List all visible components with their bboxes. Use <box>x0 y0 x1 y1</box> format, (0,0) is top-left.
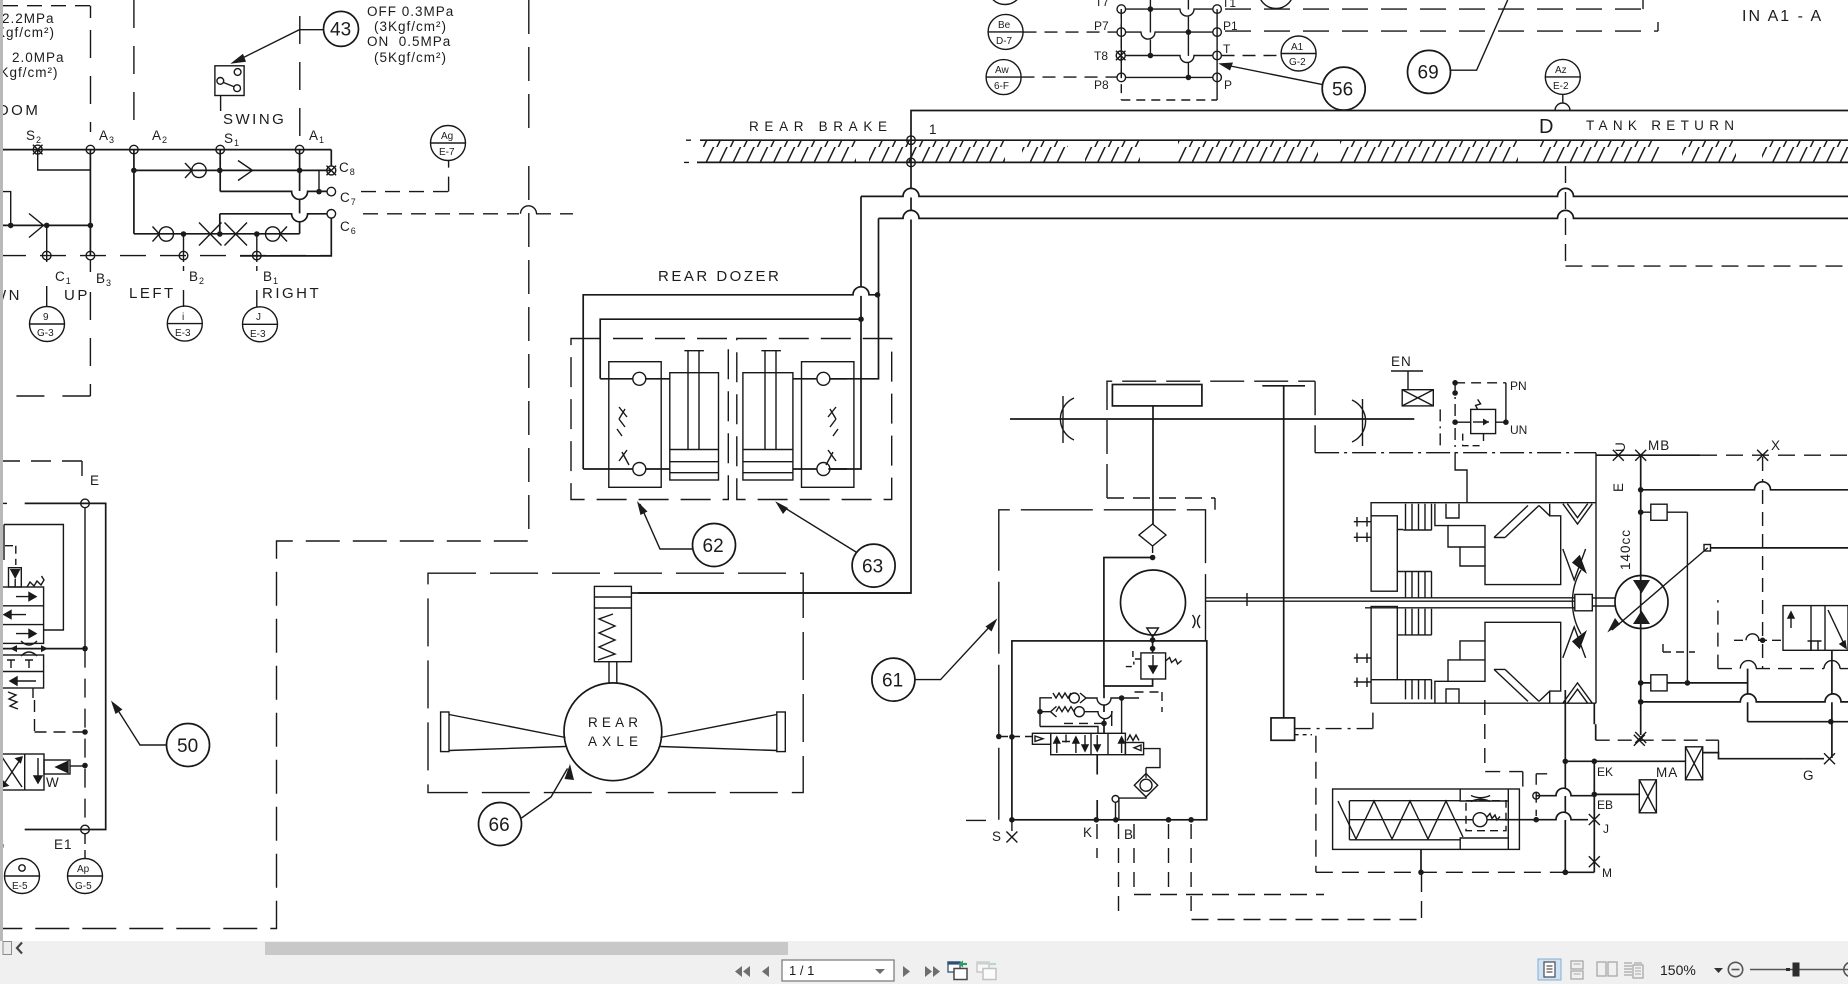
svg-text:63: 63 <box>862 557 883 578</box>
leader 61 <box>916 621 996 680</box>
wire line2 check+arrow to C8 <box>134 169 331 171</box>
cylinder right <box>743 351 793 480</box>
port C1 <box>42 251 51 260</box>
gear mesh ticks top <box>1354 517 1371 542</box>
machine boundary box (top/left) <box>638 111 1848 594</box>
leader 66 <box>522 769 568 819</box>
clutch plate stripes G1 <box>1403 504 1431 530</box>
clutch plate stripes G2 <box>1403 572 1431 598</box>
port C7 <box>327 187 336 196</box>
shuttle valve upper <box>1040 693 1139 712</box>
wire A2 vertical <box>133 150 135 234</box>
J mark <box>1589 814 1600 825</box>
other bottom junctions <box>1166 817 1172 823</box>
relief bypass loop <box>1104 558 1153 687</box>
small relief valve <box>1471 409 1496 433</box>
clutch plate stripes G3 <box>1403 609 1431 635</box>
wire PN down to UN <box>1505 383 1507 422</box>
rotate icon 1 <box>947 961 967 980</box>
location circle 9 G-3 <box>30 307 65 342</box>
leader 43 <box>236 30 324 62</box>
hub connectors <box>1397 530 1403 680</box>
directional valve <box>1032 733 1143 754</box>
dozer dashed box left <box>571 339 728 500</box>
EB line <box>1536 788 1594 796</box>
svg-text:Be: Be <box>998 20 1011 31</box>
svg-text:G-3: G-3 <box>37 328 54 339</box>
solenoid valve lower <box>0 754 44 790</box>
main shaft line <box>1010 418 1414 420</box>
wire rear brake line 2 <box>879 210 1848 218</box>
wire line3 S1 to C7 <box>220 191 327 199</box>
wire S1 vertical <box>219 150 221 192</box>
svg-text:Aw: Aw <box>995 65 1009 76</box>
svg-text:62: 62 <box>703 536 724 557</box>
dashed L to E line <box>35 700 86 732</box>
wire rear brake line 1 <box>861 188 1848 196</box>
svg-text:K: K <box>1083 825 1093 840</box>
svg-text:IN A1 - A: IN A1 - A <box>1742 8 1823 25</box>
wire line5 bottom checks <box>134 233 300 235</box>
wire switch to S1 <box>220 96 222 112</box>
svg-text:J: J <box>1603 822 1609 836</box>
lock valve right <box>802 362 854 488</box>
pressure switch symbol <box>215 66 244 96</box>
wire valve drain K <box>1096 755 1098 820</box>
page view icon cover <box>1624 963 1643 978</box>
check valve on line2 <box>185 163 206 178</box>
wire valve bottom to dashed corner <box>32 688 34 698</box>
wire y721.7 <box>1748 721 1848 723</box>
flushing valve <box>1783 606 1848 651</box>
dashed long horizontal y872 <box>1316 871 1594 873</box>
charge pump outlet triangle <box>1147 628 1159 637</box>
location circle J E-3 <box>243 307 278 342</box>
wire C1 vertical <box>46 225 48 262</box>
svg-text:S: S <box>992 829 1002 844</box>
wire ports row y150 <box>0 150 331 166</box>
shaft centre chain line <box>1315 452 1596 454</box>
wire S2 branch down to A3 <box>38 150 91 170</box>
wire branch C8 down to line3 <box>318 170 320 191</box>
svg-text:J: J <box>256 312 261 323</box>
wire row T8 <box>1126 56 1214 63</box>
leader 69 <box>1451 0 1508 70</box>
svg-text:ON 0.5MPa: ON 0.5MPa <box>367 34 451 49</box>
port P <box>1213 73 1222 82</box>
pilot dashed vertical E to E1 <box>84 508 86 649</box>
gauge square top <box>1651 504 1667 520</box>
first page button <box>735 966 742 977</box>
wire y702 long <box>1641 694 1848 702</box>
charge pump circle <box>1121 570 1186 635</box>
coupling marks right of pump <box>1193 615 1201 628</box>
valve body lower cells <box>0 655 44 688</box>
svg-text:B2: B2 <box>189 269 205 286</box>
gear mesh ticks bottom <box>1354 654 1371 688</box>
MA valve <box>1686 747 1703 780</box>
dashed pilot y668 <box>1718 600 1848 669</box>
vertical EK to M <box>1593 761 1595 861</box>
EN solenoid box <box>1402 390 1433 406</box>
svg-text:B3: B3 <box>96 271 112 288</box>
left gray strip <box>0 0 3 941</box>
svg-text:UP: UP <box>64 287 90 304</box>
top connector block T7/P7/T8/P8 <box>1094 0 1238 100</box>
port P7 <box>1117 28 1126 37</box>
location circle A1 G-2 <box>1281 36 1316 71</box>
check valve to B <box>1112 768 1158 820</box>
toolbar body <box>0 955 1848 984</box>
wire C6 down to B1 line <box>240 218 331 256</box>
wire dozer supply 2 <box>600 319 861 379</box>
small dashed corner <box>1663 640 1695 652</box>
clutch plate stripes G4 <box>1403 680 1431 700</box>
chain line x134 <box>133 0 135 131</box>
zoom out button <box>1728 962 1742 976</box>
piston staircase lower <box>1435 622 1561 703</box>
svg-text:B: B <box>1124 827 1134 842</box>
vertical x1747 <box>1747 669 1749 722</box>
wire B2 vertical <box>183 234 185 262</box>
svg-text:E: E <box>90 473 100 488</box>
svg-text:E-7: E-7 <box>439 147 455 158</box>
axle lines right <box>660 715 777 751</box>
port A2 <box>130 145 139 154</box>
scrollbar thumb <box>265 942 788 955</box>
bump on C6 dash over chain <box>521 206 537 214</box>
pilot dash C6 line right <box>363 213 573 215</box>
svg-text:W: W <box>46 775 60 790</box>
svg-text:2.2MPa: 2.2MPa <box>2 11 55 26</box>
port B3 <box>86 251 95 260</box>
location circle Az E-2 <box>1545 59 1580 94</box>
port E <box>81 499 90 508</box>
rotate icon 2 <box>976 961 996 979</box>
pilot box with triangle <box>44 760 70 774</box>
port line MB/U/X <box>1596 454 1700 456</box>
rod line <box>1349 819 1472 821</box>
wire line y225 with arrow <box>0 224 90 226</box>
svg-text:Ag: Ag <box>441 131 453 142</box>
svg-text:E-2: E-2 <box>1553 81 1569 92</box>
engine T shaft <box>1262 386 1305 718</box>
svg-text:AXLE: AXLE <box>588 734 639 749</box>
port P1 <box>1213 28 1222 37</box>
svg-text:61: 61 <box>882 671 903 692</box>
svg-text:A1: A1 <box>1291 42 1304 53</box>
leader 56 <box>1228 66 1323 85</box>
vertical x1832 <box>1831 650 1833 758</box>
variable displacement arrow <box>1612 548 1708 630</box>
valve body upper <box>0 587 44 643</box>
svg-text:56: 56 <box>1332 80 1353 101</box>
location circle partial top 2 <box>1259 0 1294 9</box>
port B1 <box>252 251 261 260</box>
svg-text:43: 43 <box>330 20 351 41</box>
pilot line dashes to Aw circle <box>1022 76 1118 78</box>
wire into left valve bottom <box>583 468 670 470</box>
coupling left <box>1060 396 1074 443</box>
svg-text:A1: A1 <box>309 128 325 145</box>
svg-text:2.0MPa: 2.0MPa <box>12 50 65 65</box>
dashed enclosure right bottom <box>1485 700 1523 790</box>
V chevron mid lower <box>1563 627 1586 658</box>
pilot line T to A1/G-2 <box>1222 55 1282 57</box>
gauge square bottom <box>1651 675 1667 691</box>
leader 50 <box>114 704 167 745</box>
dashed corner above E <box>0 461 82 476</box>
wire B1 vertical <box>256 234 258 262</box>
EB solenoid valve <box>1639 780 1656 813</box>
wire column 3 <box>1187 0 1189 77</box>
wire Az to box top <box>1555 94 1570 110</box>
chain line x300 <box>299 16 301 138</box>
callout circle 61 <box>872 658 915 701</box>
block outline top <box>1371 503 1596 516</box>
zoom dropdown caret <box>1714 968 1723 973</box>
oil cooler <box>1112 385 1202 406</box>
svg-text:REAR: REAR <box>588 715 639 730</box>
wire y683 <box>1641 682 1748 684</box>
piston staircase upper <box>1435 504 1561 585</box>
wire row P7 <box>1126 32 1214 39</box>
dashed corner y740 <box>1596 740 1719 752</box>
junctions under pump <box>1150 637 1156 643</box>
svg-text:MB: MB <box>1648 438 1670 453</box>
dashed bottoms <box>1134 875 1422 920</box>
scrollbar track <box>0 941 1848 955</box>
port A1 <box>295 145 304 154</box>
filter <box>1139 524 1166 553</box>
pilot dash to left box edge <box>1001 736 1032 738</box>
svg-text:EN: EN <box>1391 354 1412 369</box>
wire rod to J <box>1500 812 1588 819</box>
left vertical from block <box>1594 703 1595 740</box>
port T8 plugged <box>1116 51 1126 61</box>
last page button <box>925 966 932 977</box>
zoom in button (clipped) <box>1844 962 1848 976</box>
wire y648 with throttle <box>0 648 85 650</box>
cylinder left <box>670 351 719 480</box>
port T <box>1213 51 1222 60</box>
callout circle 69 <box>1408 50 1451 93</box>
svg-text:50: 50 <box>177 736 198 757</box>
chain line x528 full <box>0 0 529 929</box>
svg-text:C6: C6 <box>340 219 357 236</box>
inner feedback box <box>4 525 63 631</box>
wire pump out down <box>1152 637 1154 653</box>
svg-text:C7: C7 <box>340 190 357 207</box>
svg-text:RIGHT: RIGHT <box>262 285 321 302</box>
diagonal braces upper <box>1494 506 1550 538</box>
chain from box corner down <box>1295 734 1312 736</box>
dashed left enclosure of pump circuit <box>999 510 1206 820</box>
wire row P8 <box>1126 76 1214 78</box>
port node on band bottom <box>907 158 916 167</box>
svg-text:S2: S2 <box>26 128 42 145</box>
port T7 <box>1117 5 1126 14</box>
rear axle circle <box>564 683 662 781</box>
dozer dashed box right <box>737 339 892 500</box>
axle hub <box>1575 594 1593 610</box>
scrollbar corner button <box>3 942 12 955</box>
pilot dash into valve <box>1064 722 1104 724</box>
port node on band top <box>907 136 916 145</box>
page view icon single (active) <box>1538 959 1561 980</box>
wire vertical x877.5 to rear dozer <box>829 218 878 378</box>
port P8 <box>1117 73 1126 82</box>
svg-text:(5Kgf/cm²): (5Kgf/cm²) <box>374 50 447 65</box>
callout circle 50 <box>167 724 210 767</box>
G mark <box>1824 753 1835 764</box>
wire A1 vertical <box>299 150 301 234</box>
svg-text:E-3: E-3 <box>250 329 266 340</box>
M mark <box>1589 856 1600 867</box>
svg-text:G-5: G-5 <box>75 881 92 892</box>
EK line <box>1565 760 1594 762</box>
valve stack upper: pilot triangle <box>9 568 22 587</box>
location circle partial top <box>988 0 1023 5</box>
wire line4 to C6 <box>220 214 327 234</box>
svg-text:B1: B1 <box>263 269 279 286</box>
pilot dashed vertical x1565 + corner <box>1566 166 1848 266</box>
callout circle 62 <box>693 524 736 567</box>
wire dozer supply 1 <box>583 287 877 469</box>
line E out <box>1641 482 1848 490</box>
dashed verticals below block <box>1097 824 1191 920</box>
wire dot to valve right port <box>1121 698 1123 733</box>
wire column 1 <box>1121 9 1217 100</box>
location circle Be D-7 <box>988 14 1023 49</box>
wire cylinder to x911 <box>631 592 911 594</box>
wire loop into valve top <box>1040 727 1098 734</box>
V chevrons right top <box>1563 504 1593 524</box>
svg-text:REAR DOZER: REAR DOZER <box>658 268 781 285</box>
dashed vertical to EB circle <box>1536 774 1548 816</box>
spring top right <box>27 576 44 587</box>
wire row T7 <box>1126 9 1214 16</box>
leader 62 <box>640 504 693 549</box>
PN UN pilot network <box>1452 379 1527 453</box>
control line right <box>1711 547 1848 549</box>
arrow on y225 <box>29 214 44 238</box>
svg-text:P7: P7 <box>1094 19 1109 33</box>
pump flow triangles <box>1633 580 1650 594</box>
dashed line T1 to top-right corner <box>1225 8 1643 10</box>
svg-text:P: P <box>1224 78 1232 92</box>
port A3 <box>86 145 95 154</box>
svg-text:E-3: E-3 <box>175 328 191 339</box>
svg-text:LEFT: LEFT <box>129 285 176 302</box>
location circle Aw 6-F <box>986 60 1021 95</box>
prev page button <box>762 966 769 977</box>
svg-text:T: T <box>1223 42 1231 56</box>
callout circle 56 <box>1322 67 1365 110</box>
junction dozer line2 <box>858 316 864 322</box>
MA line from EK <box>1594 753 1804 762</box>
charge relief valve <box>1126 650 1182 679</box>
port C6 <box>327 210 336 219</box>
big spring <box>1338 801 1463 839</box>
svg-text:EK: EK <box>1597 765 1613 779</box>
svg-text:Ap: Ap <box>77 864 90 875</box>
svg-text:S1: S1 <box>224 131 240 148</box>
coupling right <box>1352 399 1366 446</box>
location circle Ap G-5 <box>68 859 103 894</box>
clutch drum rect upper <box>1371 516 1397 591</box>
svg-text:D: D <box>1539 116 1553 138</box>
wire column 2 <box>1149 0 1151 56</box>
svg-text:E: E <box>1611 482 1626 492</box>
main pump vertical <box>1640 455 1642 735</box>
svg-text:T8: T8 <box>1094 49 1108 63</box>
junction filter out <box>1150 555 1156 561</box>
throttle X pair on line5 <box>199 223 247 246</box>
dashed into flushing valve <box>1734 639 1783 641</box>
pilot line dashes to Be circle <box>1024 31 1118 33</box>
svg-text:C8: C8 <box>339 160 356 177</box>
dashed box around cooler area <box>1107 381 1315 498</box>
svg-text:E-5: E-5 <box>12 881 28 892</box>
gearbox output box <box>1271 718 1295 740</box>
dashed line P1 to top-right corner <box>1225 30 1658 32</box>
chain vertical below EN <box>1439 409 1441 449</box>
svg-text:6-F: 6-F <box>994 81 1009 92</box>
port C8 plugged <box>327 166 337 176</box>
stub wires to circles <box>47 260 257 307</box>
arrow on line2 <box>238 161 253 181</box>
svg-text:PN: PN <box>1510 379 1527 393</box>
svg-text:SWING: SWING <box>223 111 286 128</box>
control block box <box>1012 641 1207 820</box>
wire cooler to filter <box>1152 406 1154 524</box>
svg-text:G: G <box>1803 768 1815 783</box>
svg-text:66: 66 <box>489 815 510 836</box>
swash arc with arrows <box>1572 570 1581 634</box>
wire M to left vertical <box>1565 862 1594 873</box>
chain line top text box <box>3 6 91 18</box>
wire column 4 <box>1216 9 1218 100</box>
wire A3 vertical <box>89 150 91 256</box>
shuttle valve lower <box>1037 706 1112 726</box>
chain line x90 lower + bottom corner <box>0 292 90 396</box>
junction dozer line1 <box>875 292 881 298</box>
svg-text:REAR BRAKE: REAR BRAKE <box>749 119 888 134</box>
main shaft band <box>1365 607 1575 609</box>
solid box E to E1 <box>25 503 106 829</box>
inner dashed bits of control block <box>1135 692 1163 712</box>
svg-text:M: M <box>1602 866 1612 880</box>
svg-text:)Kgf/cm²): )Kgf/cm²) <box>0 65 59 80</box>
svg-text:i: i <box>182 312 184 323</box>
enclosure dashes y255 <box>0 255 330 257</box>
clutch drum rect lower <box>1371 607 1397 680</box>
svg-text:EB: EB <box>1597 798 1613 812</box>
svg-text:G-2: G-2 <box>1289 57 1306 68</box>
pilot dash above triangle <box>5 546 16 565</box>
wire into left valve top <box>600 379 847 469</box>
chain from box right <box>1295 707 1373 729</box>
spring bottom left <box>8 692 18 709</box>
throttle arcs on y648 <box>21 641 37 656</box>
zoom slider <box>1750 969 1848 971</box>
svg-text:OOM: OOM <box>0 102 40 119</box>
svg-text:T7: T7 <box>1095 0 1109 9</box>
port B2 <box>179 251 188 260</box>
svg-text:X: X <box>1771 438 1781 453</box>
svg-text:9: 9 <box>43 312 49 323</box>
